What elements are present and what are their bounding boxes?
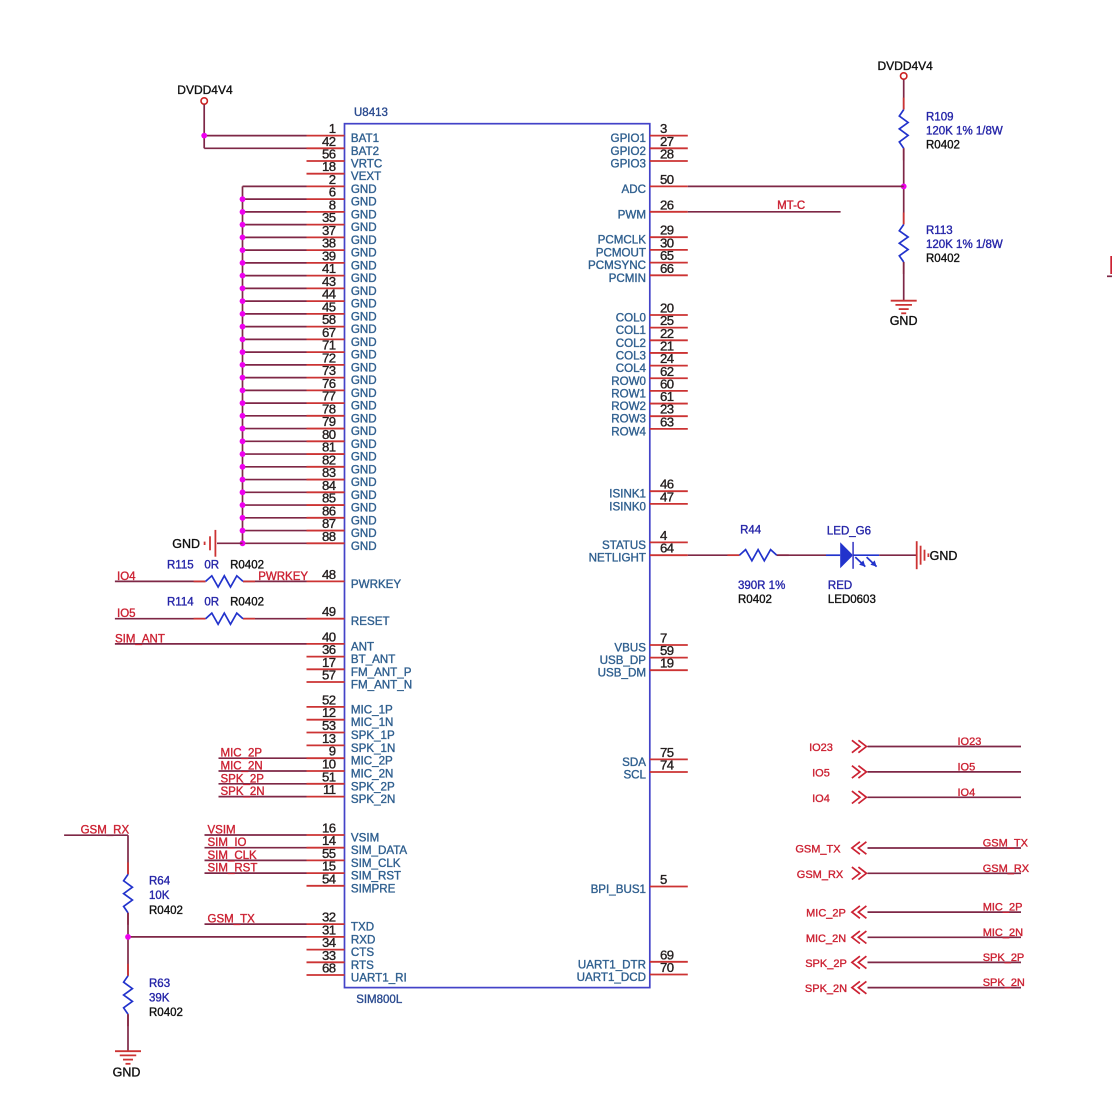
svg-text:R0402: R0402	[149, 905, 183, 917]
svg-text:SPK_2P: SPK_2P	[351, 780, 395, 793]
svg-text:MIC_2P: MIC_2P	[806, 908, 846, 920]
svg-text:GND: GND	[351, 247, 377, 260]
svg-text:BAT2: BAT2	[351, 145, 379, 158]
svg-text:26: 26	[660, 197, 674, 212]
svg-text:GND: GND	[351, 221, 377, 234]
svg-text:SPK_2N: SPK_2N	[805, 983, 847, 995]
svg-text:GND: GND	[351, 400, 377, 413]
svg-text:SPK_2N: SPK_2N	[221, 786, 265, 798]
svg-text:GND: GND	[351, 272, 377, 285]
svg-text:MIC_2N: MIC_2N	[806, 933, 846, 945]
svg-text:USB_DP: USB_DP	[600, 654, 647, 667]
svg-text:PCMIN: PCMIN	[609, 272, 646, 285]
svg-text:ROW1: ROW1	[611, 387, 646, 400]
svg-text:IO4: IO4	[958, 787, 976, 799]
svg-text:UART1_DTR: UART1_DTR	[578, 958, 646, 971]
svg-text:R63: R63	[149, 978, 170, 990]
svg-text:IO4: IO4	[812, 793, 830, 805]
svg-text:39K: 39K	[149, 992, 170, 1004]
svg-text:SPK_2P: SPK_2P	[221, 773, 265, 785]
svg-text:64: 64	[660, 541, 674, 556]
svg-text:DVDD4V4: DVDD4V4	[878, 59, 934, 73]
svg-text:MIC_2N: MIC_2N	[983, 927, 1023, 939]
svg-text:PCMCLK: PCMCLK	[598, 234, 647, 247]
svg-text:R115: R115	[167, 559, 194, 571]
svg-text:SIM_CLK: SIM_CLK	[208, 850, 258, 862]
svg-text:GND: GND	[351, 196, 377, 209]
svg-text:STATUS: STATUS	[602, 539, 646, 552]
svg-text:R0402: R0402	[149, 1007, 183, 1019]
svg-text:0R: 0R	[204, 559, 219, 571]
svg-text:GND: GND	[351, 336, 377, 349]
svg-text:GND: GND	[351, 540, 377, 553]
svg-text:RESET: RESET	[351, 615, 390, 628]
svg-text:MT-C: MT-C	[777, 200, 805, 212]
svg-text:BT_ANT: BT_ANT	[351, 653, 395, 666]
svg-text:VSIM: VSIM	[208, 825, 236, 837]
svg-text:PCMSYNC: PCMSYNC	[588, 259, 646, 272]
svg-text:GND: GND	[351, 514, 377, 527]
svg-text:GSM_TX: GSM_TX	[208, 914, 256, 926]
svg-text:RED: RED	[828, 580, 852, 592]
svg-text:SIM_RST: SIM_RST	[351, 870, 401, 883]
svg-text:SIM_IO: SIM_IO	[208, 837, 247, 849]
svg-text:VEXT: VEXT	[351, 170, 381, 183]
svg-text:19: 19	[660, 656, 674, 671]
svg-text:120K 1% 1/8W: 120K 1% 1/8W	[926, 239, 1003, 251]
svg-text:GND: GND	[172, 537, 200, 551]
svg-text:VRTC: VRTC	[351, 158, 382, 171]
svg-text:R44: R44	[740, 525, 762, 537]
svg-text:SPK_2N: SPK_2N	[983, 977, 1025, 989]
svg-text:120K 1% 1/8W: 120K 1% 1/8W	[926, 126, 1003, 138]
svg-text:GND: GND	[351, 298, 377, 311]
svg-text:MIC_2P: MIC_2P	[351, 755, 393, 768]
svg-text:GPIO1: GPIO1	[611, 132, 646, 145]
svg-text:SPK_2P: SPK_2P	[805, 958, 847, 970]
svg-text:GND: GND	[351, 476, 377, 489]
svg-text:PCMOUT: PCMOUT	[596, 246, 646, 259]
svg-text:DVDD4V4: DVDD4V4	[177, 83, 233, 97]
svg-text:SIM800L: SIM800L	[356, 994, 403, 1006]
svg-text:ROW4: ROW4	[611, 425, 646, 438]
svg-text:MIC_2N: MIC_2N	[221, 761, 263, 773]
svg-text:0R: 0R	[204, 597, 219, 609]
svg-text:ISINK0: ISINK0	[609, 500, 646, 513]
svg-text:GND: GND	[351, 527, 377, 540]
svg-text:GND: GND	[351, 310, 377, 323]
svg-text:GND: GND	[351, 234, 377, 247]
svg-text:MIC_1P: MIC_1P	[351, 703, 393, 716]
svg-text:R109: R109	[926, 112, 954, 124]
svg-text:GND: GND	[930, 549, 958, 563]
svg-text:LED_G6: LED_G6	[827, 525, 871, 537]
svg-text:TXD: TXD	[351, 921, 374, 934]
svg-text:R114: R114	[167, 597, 194, 609]
svg-text:R0402: R0402	[230, 559, 264, 571]
svg-text:10K: 10K	[149, 890, 170, 902]
svg-text:SPK_1N: SPK_1N	[351, 742, 395, 755]
svg-text:IO23: IO23	[809, 742, 833, 754]
svg-text:MIC_2N: MIC_2N	[351, 768, 394, 781]
svg-text:MIC_2P: MIC_2P	[221, 748, 263, 760]
svg-text:66: 66	[660, 261, 674, 276]
svg-text:IO5: IO5	[812, 767, 830, 779]
svg-text:GPIO2: GPIO2	[611, 145, 646, 158]
svg-text:PWRKEY: PWRKEY	[258, 571, 308, 583]
svg-text:GND: GND	[351, 259, 377, 272]
svg-text:GND: GND	[351, 463, 377, 476]
svg-text:68: 68	[322, 961, 336, 976]
svg-text:R113: R113	[926, 225, 953, 237]
svg-text:88: 88	[322, 529, 336, 544]
svg-text:UART1_DCD: UART1_DCD	[577, 971, 646, 984]
svg-text:SIMPRE: SIMPRE	[351, 882, 396, 895]
svg-text:GND: GND	[351, 387, 377, 400]
svg-text:GND: GND	[351, 183, 377, 196]
svg-text:SDA: SDA	[622, 756, 646, 769]
svg-text:FM_ANT_P: FM_ANT_P	[351, 666, 412, 679]
svg-text:57: 57	[322, 668, 336, 683]
svg-text:SIM_CLK: SIM_CLK	[351, 857, 401, 870]
svg-text:28: 28	[660, 147, 674, 162]
svg-text:MIC_2P: MIC_2P	[983, 902, 1023, 914]
svg-text:NETLIGHT: NETLIGHT	[589, 552, 646, 565]
svg-text:PWM: PWM	[618, 208, 646, 221]
svg-text:390R 1%: 390R 1%	[738, 580, 785, 592]
svg-text:FM_ANT_N: FM_ANT_N	[351, 679, 412, 692]
svg-text:BPI_BUS1: BPI_BUS1	[591, 883, 646, 896]
svg-text:GND: GND	[351, 323, 377, 336]
svg-text:CTS: CTS	[351, 946, 374, 959]
svg-text:ROW3: ROW3	[611, 413, 646, 426]
svg-text:50: 50	[660, 172, 674, 187]
svg-text:GSM_TX: GSM_TX	[983, 838, 1029, 850]
svg-text:GND: GND	[890, 314, 918, 328]
svg-text:BAT1: BAT1	[351, 132, 379, 145]
svg-text:IO5: IO5	[958, 761, 976, 773]
svg-text:GND: GND	[113, 1066, 141, 1080]
svg-text:COL2: COL2	[616, 337, 646, 350]
svg-text:COL0: COL0	[616, 312, 646, 325]
svg-text:U8413: U8413	[354, 107, 388, 119]
svg-text:ISINK1: ISINK1	[609, 488, 646, 501]
svg-text:GND: GND	[351, 451, 377, 464]
svg-text:GND: GND	[351, 285, 377, 298]
svg-text:74: 74	[660, 758, 674, 773]
svg-text:R0402: R0402	[926, 253, 960, 265]
svg-text:USB_DM: USB_DM	[598, 667, 646, 680]
svg-text:SCL: SCL	[623, 769, 646, 782]
svg-text:SIM_RST: SIM_RST	[208, 863, 258, 875]
svg-text:RXD: RXD	[351, 933, 375, 946]
svg-text:GSM_RX: GSM_RX	[797, 869, 844, 881]
svg-text:VSIM: VSIM	[351, 832, 379, 845]
svg-text:SPK_2P: SPK_2P	[983, 952, 1025, 964]
svg-text:GND: GND	[351, 349, 377, 362]
svg-text:48: 48	[322, 567, 336, 582]
svg-text:GSM_TX: GSM_TX	[795, 844, 841, 856]
svg-text:SIM_ANT: SIM_ANT	[115, 633, 165, 645]
svg-text:ROW0: ROW0	[611, 375, 646, 388]
svg-text:SPK_2N: SPK_2N	[351, 793, 395, 806]
svg-text:70: 70	[660, 960, 674, 975]
svg-text:COL4: COL4	[616, 362, 647, 375]
svg-text:GND: GND	[351, 361, 377, 374]
svg-text:COL3: COL3	[616, 349, 646, 362]
svg-text:UART1_RI: UART1_RI	[351, 972, 407, 985]
svg-text:GPIO3: GPIO3	[611, 158, 646, 171]
svg-text:SIM_DATA: SIM_DATA	[351, 844, 408, 857]
svg-text:11: 11	[323, 782, 336, 797]
svg-text:GND: GND	[351, 425, 377, 438]
svg-text:63: 63	[660, 414, 674, 429]
svg-text:R0402: R0402	[230, 597, 264, 609]
svg-text:PWRKEY: PWRKEY	[351, 578, 402, 591]
svg-text:SPK_1P: SPK_1P	[351, 729, 395, 742]
svg-text:ADC: ADC	[622, 183, 646, 196]
svg-text:ROW2: ROW2	[611, 400, 646, 413]
svg-text:GND: GND	[351, 412, 377, 425]
svg-text:R64: R64	[149, 876, 171, 888]
svg-text:54: 54	[322, 871, 336, 886]
svg-text:COL1: COL1	[616, 324, 646, 337]
svg-text:GND: GND	[351, 208, 377, 221]
svg-text:GND: GND	[351, 374, 377, 387]
svg-text:5: 5	[660, 872, 667, 887]
svg-text:MIC_1N: MIC_1N	[351, 716, 394, 729]
svg-text:GND: GND	[351, 489, 377, 502]
svg-text:R0402: R0402	[738, 594, 772, 606]
svg-text:49: 49	[322, 604, 336, 619]
svg-text:GND: GND	[351, 438, 377, 451]
svg-text:R0402: R0402	[926, 139, 960, 151]
svg-text:GND: GND	[351, 502, 377, 515]
svg-text:VBUS: VBUS	[614, 642, 646, 655]
svg-text:RTS: RTS	[351, 959, 374, 972]
svg-text:47: 47	[660, 489, 674, 504]
svg-text:GSM_RX: GSM_RX	[983, 863, 1030, 875]
svg-text:ANT: ANT	[351, 640, 374, 653]
svg-text:LED0603: LED0603	[828, 594, 876, 606]
svg-text:IO23: IO23	[958, 736, 982, 748]
